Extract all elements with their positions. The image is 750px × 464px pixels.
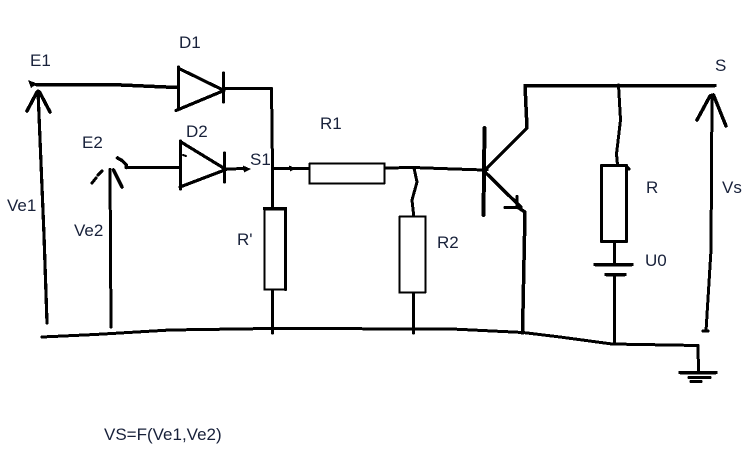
svg-text:R2: R2	[437, 233, 459, 252]
svg-text:U0: U0	[645, 251, 667, 270]
svg-text:VS=F(Ve1,Ve2): VS=F(Ve1,Ve2)	[104, 425, 222, 444]
wire E1 to D1	[36, 85, 177, 88]
svg-text:Ve1: Ve1	[7, 196, 36, 215]
wire node to R2	[412, 168, 417, 218]
svg-text:R': R'	[237, 230, 253, 249]
bottom bus wire	[42, 329, 698, 346]
wire D1 to node	[225, 87, 271, 90]
svg-text:R: R	[646, 178, 658, 197]
transistor emitter	[486, 173, 521, 207]
node S1 wire	[275, 167, 309, 170]
resistor R'	[265, 209, 286, 290]
resistor R	[602, 166, 627, 242]
wire D1 corner down to S1 and R'	[272, 89, 273, 208]
diode D1	[177, 67, 180, 108]
transistor Q1 base bar	[484, 128, 485, 215]
node E1	[28, 80, 37, 88]
svg-text:D1: D1	[179, 33, 201, 52]
battery U0	[595, 263, 632, 267]
ground	[680, 371, 716, 375]
node E2	[118, 158, 128, 168]
svg-text:D2: D2	[186, 122, 208, 141]
diode D2	[179, 141, 182, 189]
wire D2 to S1	[227, 167, 246, 171]
svg-text:E1: E1	[30, 51, 51, 70]
svg-text:E2: E2	[82, 133, 103, 152]
wire E2 to D2	[126, 166, 179, 169]
Vs arrow	[706, 95, 712, 331]
top wire	[525, 84, 715, 88]
wire top to R	[617, 85, 621, 165]
resistor R1	[310, 164, 385, 184]
svg-text:Vs: Vs	[722, 178, 742, 197]
wire R to battery	[613, 242, 616, 263]
svg-text:S1: S1	[250, 150, 271, 169]
Ve2 arrow	[110, 170, 111, 328]
Ve1 arrow	[38, 91, 47, 323]
svg-text:S: S	[715, 56, 726, 75]
wire R' to bus	[271, 290, 274, 333]
wire bus to ground	[697, 346, 701, 371]
svg-text:R1: R1	[320, 114, 342, 133]
transistor collector	[486, 86, 527, 170]
wire R2 to bus	[412, 293, 415, 333]
wire battery to bus	[613, 276, 616, 343]
svg-text:Ve2: Ve2	[74, 221, 103, 240]
wire R1 to transistor base	[385, 168, 484, 171]
resistor R2	[400, 217, 426, 293]
